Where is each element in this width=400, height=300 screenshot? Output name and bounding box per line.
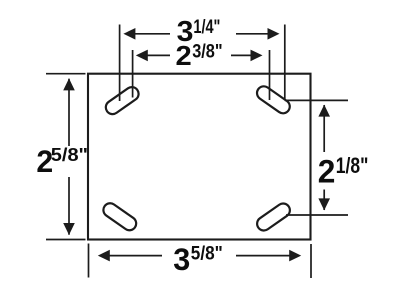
arrowhead 2 3/8 left bbox=[136, 50, 148, 62]
dim line 3 5/8 left segment bbox=[109, 255, 162, 257]
svg-text:1/8": 1/8" bbox=[336, 153, 369, 178]
svg-text:3/8": 3/8" bbox=[192, 42, 222, 63]
arrowhead 3 5/8 right bbox=[289, 250, 301, 262]
dim line 3 5/8 right segment bbox=[236, 255, 290, 257]
svg-text:2: 2 bbox=[176, 40, 192, 71]
extension line: 2 3/8 left vertical bbox=[132, 50, 134, 98]
extension line: right dim top horizontal bbox=[285, 99, 348, 101]
arrowhead 2 5/8 down bbox=[63, 223, 75, 235]
extension line: 2 3/8 right vertical bbox=[269, 50, 271, 100]
plate outline bbox=[88, 74, 311, 240]
svg-text:5/8": 5/8" bbox=[191, 243, 223, 265]
dim line 2 1/8 vertical bottom segment bbox=[323, 190, 325, 211]
extension line: right dim bottom horizontal bbox=[286, 214, 348, 216]
slot bottom-right bbox=[254, 201, 292, 233]
dim line 2 3/8 left segment bbox=[146, 54, 170, 56]
svg-text:2: 2 bbox=[318, 153, 336, 189]
extension line: left dim top horizontal bbox=[46, 73, 86, 75]
extension line: left dim bottom horizontal bbox=[46, 239, 86, 241]
slot top-left bbox=[103, 84, 141, 116]
svg-text:3: 3 bbox=[173, 242, 190, 277]
dim line 3 1/4 left segment bbox=[134, 33, 170, 35]
extension line: 3 1/4 left vertical bbox=[119, 25, 121, 102]
svg-text:5/8": 5/8" bbox=[51, 145, 88, 165]
dim line 2 1/8 vertical top segment bbox=[323, 105, 325, 152]
arrowhead 3 1/4 left bbox=[123, 28, 135, 40]
extension line: 3 1/4 right vertical bbox=[284, 25, 286, 101]
dim line 2 5/8 vertical top segment bbox=[68, 79, 70, 146]
arrowhead 3 1/4 right bbox=[268, 28, 280, 40]
slot bottom-left bbox=[101, 201, 139, 233]
arrowhead 2 1/8 down bbox=[318, 198, 330, 210]
extension line: bottom dim left vertical bbox=[88, 244, 90, 278]
arrowhead 2 5/8 up bbox=[63, 78, 75, 90]
arrowhead 3 5/8 left bbox=[98, 250, 110, 262]
extension line: bottom dim right vertical bbox=[310, 244, 312, 278]
dim line 3 1/4 right segment bbox=[236, 33, 269, 35]
arrowhead 2 1/8 up bbox=[318, 105, 330, 117]
slot top-right bbox=[254, 84, 292, 116]
arrowhead 2 3/8 right bbox=[251, 50, 263, 62]
dim line 2 5/8 vertical bottom segment bbox=[68, 177, 70, 235]
dim line 2 3/8 right segment bbox=[231, 54, 252, 56]
svg-text:1/4": 1/4" bbox=[193, 17, 220, 38]
